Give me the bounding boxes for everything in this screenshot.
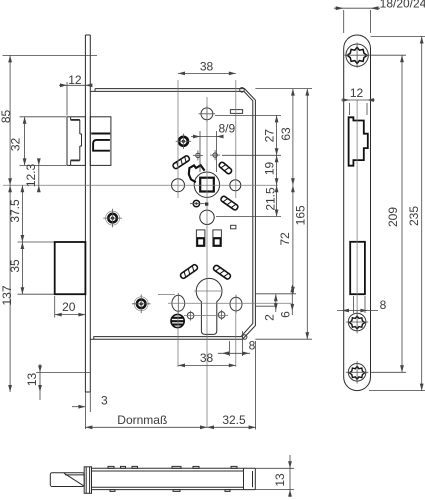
small cross hole left (187, 311, 194, 321)
plate screw top (344, 43, 369, 68)
follower (square spindle hub) with cam lobe (189, 165, 220, 197)
dim 12 plate cutout (349, 103, 351, 115)
svg-text:27: 27 (263, 129, 277, 143)
svg-text:63: 63 (279, 127, 293, 141)
dim 3 (72, 406, 85, 408)
svg-text:85: 85 (0, 110, 13, 124)
svg-text:32.5: 32.5 (222, 413, 246, 427)
corner rivet top-right (240, 88, 245, 93)
tabs (108, 466, 114, 468)
dim 27 (276, 115, 278, 155)
dim 85 left (3, 54, 98, 56)
plate centerline (356, 100, 358, 311)
dim 72 (292, 185, 294, 294)
latch tail block inside case (90, 117, 111, 166)
screw S3 (132, 295, 151, 314)
svg-text:35: 35 (8, 259, 22, 273)
latch bolt (front view, protruding left) (67, 117, 85, 166)
svg-text:13: 13 (25, 373, 39, 387)
dim 8 below case (229, 341, 231, 356)
svg-text:12: 12 (350, 86, 364, 100)
svg-text:38: 38 (200, 60, 214, 74)
faceplate bar (84, 467, 91, 494)
plate screw mid (346, 311, 368, 333)
screw S4 small (190, 200, 205, 206)
svg-text:235: 235 (407, 206, 421, 226)
dim 235 (371, 36, 425, 38)
svg-text:19: 19 (263, 162, 277, 176)
small cross hole right (218, 310, 225, 320)
plate screw bottom (346, 361, 368, 383)
svg-text:12: 12 (68, 73, 82, 87)
top guide hole (199, 106, 216, 123)
svg-text:Dornmaß: Dornmaß (117, 413, 167, 427)
svg-text:3: 3 (101, 393, 108, 407)
svg-text:137: 137 (0, 285, 14, 305)
svg-text:165: 165 (294, 205, 308, 225)
screw S2 (103, 209, 122, 228)
dim 137 left (9, 185, 11, 392)
spring below-right of follower (220, 195, 239, 210)
tiny hole right (210, 150, 220, 160)
spring above cylinder right (213, 264, 232, 279)
euro profile cylinder hole (196, 278, 222, 334)
svg-text:12.3: 12.3 (24, 163, 38, 187)
dim 209 (371, 54, 407, 56)
svg-text:38: 38 (200, 351, 214, 365)
plate deadbolt cutout (350, 242, 365, 294)
dim 38 top (178, 72, 236, 74)
screw S1 torx upper (176, 134, 191, 149)
plate latch cutout (349, 117, 368, 165)
dim 6 (291, 285, 293, 315)
slot near top right (230, 110, 242, 114)
dim 18/20/24 (343, 10, 345, 33)
dim 8 plate cutout (353, 296, 355, 313)
svg-text:37.5: 37.5 (8, 199, 22, 223)
dim 35 left (18, 293, 55, 295)
spring upper-left of follower (172, 155, 190, 170)
right column ext lines (255, 88, 312, 90)
dim 12.3 left (38, 159, 40, 192)
dim 63 (292, 89, 294, 186)
Dornmass line (255, 341, 257, 430)
svg-text:32: 32 (9, 138, 23, 152)
dim 165 (306, 89, 308, 340)
deadbolt (thrown, protruding left) (55, 242, 86, 294)
svg-text:13: 13 (273, 473, 287, 487)
follower-level circle right (230, 180, 241, 191)
dim 8/9 follower (191, 136, 224, 138)
dim 37.5 left (18, 241, 55, 243)
dim 19 (276, 155, 278, 185)
svg-text:21.5: 21.5 (264, 187, 278, 211)
follower-level circle left (172, 179, 185, 192)
dim 12 top (latch protrusion) (66, 82, 68, 116)
right view dims (334, 6, 425, 390)
dim 38 bottom (178, 364, 236, 366)
main view: lock case outline (90, 89, 255, 340)
svg-text:20: 20 (62, 300, 76, 314)
side hole left (ellipse) (172, 293, 185, 314)
dim 32 left (20, 116, 67, 118)
svg-text:8/9: 8/9 (218, 122, 235, 136)
small slot right (231, 225, 236, 229)
main view: faceplate strip edge-on (85, 35, 90, 392)
round hole below follower (200, 210, 214, 224)
svg-text:18/20/24: 18/20/24 (380, 0, 425, 11)
twin slots below follower (196, 230, 221, 247)
latch tip (50, 473, 84, 487)
spring above cylinder left (180, 264, 199, 279)
dim 2 (275, 294, 277, 312)
svg-text:72: 72 (278, 232, 292, 246)
svg-text:8: 8 (249, 339, 256, 353)
dim 21.5 (276, 185, 278, 216)
small square pin (205, 203, 208, 206)
svg-text:8: 8 (380, 298, 387, 312)
pawl right of follower (218, 161, 232, 174)
dim 13 lower-left (36, 371, 90, 373)
striped adjuster screw (171, 314, 184, 327)
svg-text:2: 2 (262, 314, 276, 321)
svg-text:6: 6 (278, 311, 292, 318)
centerlines (3, 80, 292, 427)
case slab (92, 467, 256, 469)
side hole right (ellipse) (230, 295, 242, 314)
svg-text:209: 209 (386, 207, 400, 227)
corner rivet bottom-right (242, 335, 247, 340)
dim 20 bottom-left (54, 296, 56, 318)
dim 13 bottom view (255, 455, 294, 497)
tiny hole left (193, 150, 203, 160)
